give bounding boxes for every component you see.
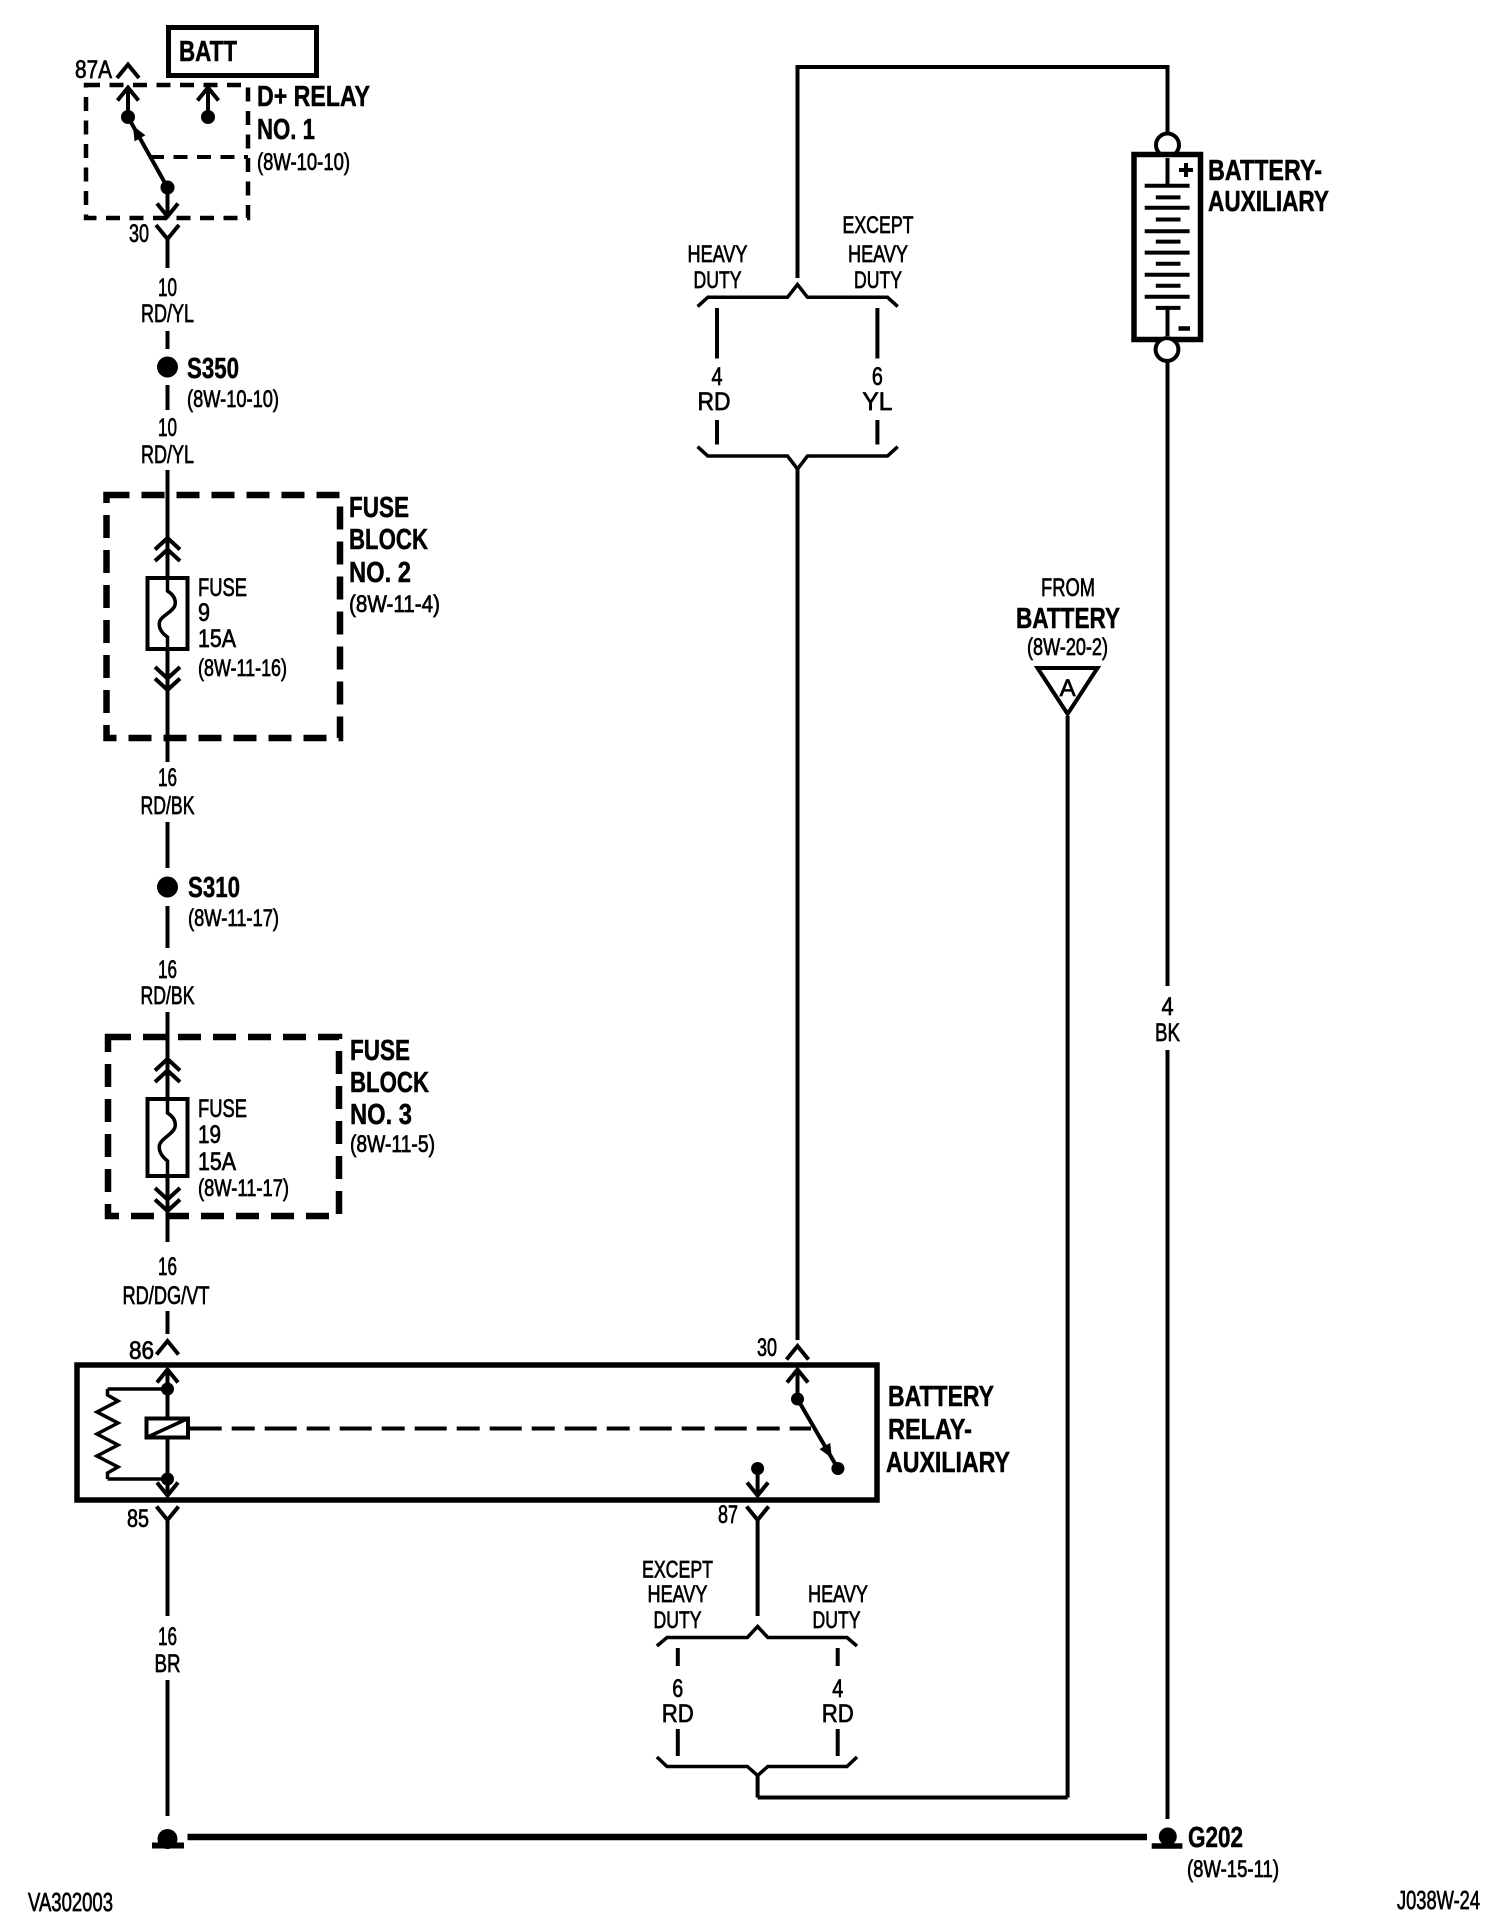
svg-text:15A: 15A xyxy=(198,625,236,653)
svg-text:(8W-10-10): (8W-10-10) xyxy=(187,386,279,413)
svg-text:DUTY: DUTY xyxy=(813,1607,861,1634)
svg-text:NO. 3: NO. 3 xyxy=(350,1099,412,1131)
svg-text:RD: RD xyxy=(822,1700,854,1728)
svg-text:(8W-20-2): (8W-20-2) xyxy=(1027,634,1108,661)
svg-text:BK: BK xyxy=(1155,1019,1180,1047)
svg-text:BATTERY-: BATTERY- xyxy=(1208,155,1322,187)
svg-text:30: 30 xyxy=(757,1334,777,1362)
svg-text:(8W-11-17): (8W-11-17) xyxy=(188,905,279,932)
svg-text:G202: G202 xyxy=(1188,1822,1243,1854)
svg-text:10: 10 xyxy=(158,414,177,442)
svg-text:10: 10 xyxy=(158,274,177,302)
svg-text:AUXILIARY: AUXILIARY xyxy=(886,1447,1010,1479)
svg-text:9: 9 xyxy=(198,599,210,627)
svg-text:BATT: BATT xyxy=(179,36,237,68)
svg-text:FUSE: FUSE xyxy=(350,1035,410,1067)
svg-text:16: 16 xyxy=(158,956,177,984)
svg-text:(8W-15-11): (8W-15-11) xyxy=(1187,1856,1279,1883)
svg-text:FUSE: FUSE xyxy=(349,492,409,524)
svg-text:S350: S350 xyxy=(187,353,239,385)
svg-text:J038W-24: J038W-24 xyxy=(1397,1885,1480,1915)
svg-text:S310: S310 xyxy=(188,872,240,904)
svg-text:RD/YL: RD/YL xyxy=(141,300,194,328)
svg-text:BATTERY: BATTERY xyxy=(1016,603,1120,635)
svg-text:HEAVY: HEAVY xyxy=(648,1581,708,1608)
svg-text:RD/DG/VT: RD/DG/VT xyxy=(123,1282,210,1310)
svg-text:6: 6 xyxy=(672,1675,683,1703)
svg-text:87: 87 xyxy=(718,1501,738,1529)
svg-text:RELAY-: RELAY- xyxy=(888,1414,972,1446)
svg-text:16: 16 xyxy=(158,1253,177,1281)
svg-text:RD/BK: RD/BK xyxy=(141,792,195,820)
svg-text:(8W-11-17): (8W-11-17) xyxy=(198,1175,289,1202)
svg-text:(8W-10-10): (8W-10-10) xyxy=(257,149,350,176)
svg-text:RD/YL: RD/YL xyxy=(141,441,194,469)
svg-text:30: 30 xyxy=(129,220,149,248)
svg-text:16: 16 xyxy=(158,1623,177,1651)
svg-text:DUTY: DUTY xyxy=(854,267,902,294)
svg-text:FUSE: FUSE xyxy=(198,574,247,602)
svg-text:HEAVY: HEAVY xyxy=(848,241,908,268)
svg-text:RD: RD xyxy=(698,388,731,416)
svg-text:NO. 2: NO. 2 xyxy=(349,557,411,589)
svg-text:16: 16 xyxy=(158,764,177,792)
svg-text:FROM: FROM xyxy=(1041,574,1095,602)
svg-text:HEAVY: HEAVY xyxy=(808,1581,868,1608)
svg-text:VA302003: VA302003 xyxy=(28,1887,113,1917)
svg-text:86: 86 xyxy=(129,1337,154,1365)
svg-text:YL: YL xyxy=(862,388,892,416)
svg-text:(8W-11-16): (8W-11-16) xyxy=(198,655,287,682)
svg-text:BLOCK: BLOCK xyxy=(349,524,428,556)
svg-text:AUXILIARY: AUXILIARY xyxy=(1208,186,1329,218)
svg-text:NO. 1: NO. 1 xyxy=(257,114,315,146)
svg-text:FUSE: FUSE xyxy=(198,1095,247,1123)
svg-text:15A: 15A xyxy=(198,1148,236,1176)
svg-text:4: 4 xyxy=(1162,993,1174,1021)
svg-text:RD/BK: RD/BK xyxy=(141,982,195,1010)
svg-text:4: 4 xyxy=(712,363,723,391)
svg-text:D+ RELAY: D+ RELAY xyxy=(257,81,370,113)
svg-text:RD: RD xyxy=(662,1700,694,1728)
svg-text:EXCEPT: EXCEPT xyxy=(642,1557,713,1584)
svg-text:HEAVY: HEAVY xyxy=(688,241,748,268)
svg-text:BATTERY: BATTERY xyxy=(888,1381,994,1413)
svg-text:BLOCK: BLOCK xyxy=(350,1067,429,1099)
svg-text:(8W-11-4): (8W-11-4) xyxy=(349,591,440,618)
svg-text:6: 6 xyxy=(872,363,883,391)
svg-text:DUTY: DUTY xyxy=(694,267,742,294)
svg-text:4: 4 xyxy=(832,1675,843,1703)
svg-text:87A: 87A xyxy=(75,56,112,84)
svg-text:A: A xyxy=(1060,675,1076,702)
svg-text:DUTY: DUTY xyxy=(654,1607,702,1634)
svg-text:19: 19 xyxy=(198,1121,221,1149)
svg-text:(8W-11-5): (8W-11-5) xyxy=(350,1131,435,1158)
svg-text:BR: BR xyxy=(155,1650,181,1678)
svg-text:85: 85 xyxy=(127,1505,149,1533)
svg-text:EXCEPT: EXCEPT xyxy=(843,212,914,239)
